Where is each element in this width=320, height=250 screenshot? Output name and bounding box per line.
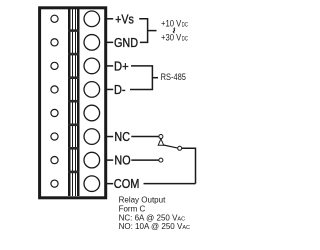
svg-text:NO: 10A @ 250 VAC: NO: 10A @ 250 VAC: [119, 222, 190, 231]
svg-text:COM: COM: [114, 177, 140, 191]
svg-text:NC: NC: [114, 130, 130, 144]
svg-text:D-: D-: [114, 83, 126, 97]
svg-text:+10 V: +10 V: [161, 18, 182, 28]
svg-text:DC: DC: [182, 21, 189, 28]
svg-text:+Vs: +Vs: [115, 12, 134, 26]
svg-text:Relay Output: Relay Output: [119, 196, 166, 205]
svg-text:Form C: Form C: [119, 205, 146, 214]
svg-text:D+: D+: [114, 59, 129, 73]
svg-text:NO: NO: [114, 154, 130, 168]
svg-text:+30 V: +30 V: [161, 33, 182, 43]
svg-text:RS-485: RS-485: [161, 71, 186, 82]
svg-text:NC: 6A @ 250 VAC: NC: 6A @ 250 VAC: [119, 213, 185, 222]
svg-text:DC: DC: [182, 36, 189, 43]
svg-text:GND: GND: [114, 36, 138, 50]
